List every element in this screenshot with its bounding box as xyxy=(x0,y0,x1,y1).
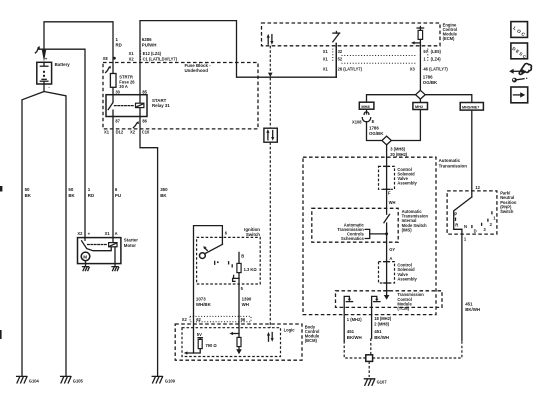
svg-text:D12: D12 xyxy=(116,130,124,135)
svg-text:GY: GY xyxy=(389,247,395,252)
svg-text:350: 350 xyxy=(160,187,168,192)
svg-text:N: N xyxy=(464,224,467,229)
control solenoid valve assembly lower dashed box xyxy=(379,262,418,283)
svg-text:C1 (LAT/LDV/LY7): C1 (LAT/LDV/LY7) xyxy=(143,56,178,61)
svg-text:X2: X2 xyxy=(130,130,136,135)
internal mode switch dashed box xyxy=(312,208,429,242)
wire 350 BK relay 86 to ground G109 xyxy=(140,117,168,376)
relay pin labels 87 86 xyxy=(115,118,147,123)
svg-text:5V: 5V xyxy=(197,332,202,337)
svg-text:1073: 1073 xyxy=(196,297,206,302)
svg-text:18 (MH2): 18 (MH2) xyxy=(374,316,392,321)
svg-text:32: 32 xyxy=(338,49,343,54)
battery xyxy=(37,57,70,90)
wire terminus arrow into TCM xyxy=(384,291,390,300)
svg-text:87: 87 xyxy=(115,118,120,123)
legend icon go-to arrow xyxy=(511,87,528,103)
PNP selector wiper path xyxy=(454,197,472,229)
svg-text:+: + xyxy=(88,232,91,237)
svg-text:(LZ4): (LZ4) xyxy=(431,57,442,62)
starter contact blade xyxy=(82,238,112,251)
svg-text:P: P xyxy=(454,212,457,217)
relay switch contact xyxy=(108,95,113,117)
ECM pin rows right: 57 (LE5) / 1 (LZ4) / X3 46 xyxy=(410,49,449,72)
ignition switch dashed box xyxy=(197,237,261,284)
svg-text:86: 86 xyxy=(142,118,147,123)
splice junction square xyxy=(366,355,373,362)
wire label 1073 WH/BK xyxy=(196,297,212,308)
svg-text:451: 451 xyxy=(347,329,355,334)
automatic transmission dashed box xyxy=(303,157,467,314)
TCM ground driver 2 xyxy=(372,296,380,307)
svg-text:X2: X2 xyxy=(77,231,83,236)
dashed wire splice to PNP 451 BK/WH xyxy=(373,340,462,358)
ignition switch label xyxy=(244,227,260,237)
svg-text:56: 56 xyxy=(241,317,246,322)
svg-text:PU: PU xyxy=(115,193,121,198)
svg-text:451: 451 xyxy=(465,302,473,307)
connector X8 junction xyxy=(103,56,116,61)
wire X108 to lower diamond xyxy=(367,122,382,141)
starter solenoid coil xyxy=(109,238,117,267)
svg-text:(ECM): (ECM) xyxy=(443,36,455,41)
ignition terminal B stub xyxy=(239,252,244,263)
svg-text:30 A: 30 A xyxy=(119,84,128,89)
svg-text:50: 50 xyxy=(68,187,73,192)
fusible link hook at fuse top xyxy=(106,66,111,73)
BCM updown arrows on control line xyxy=(267,332,274,342)
ECM internal pullup resistor and sense arrow xyxy=(411,27,424,46)
svg-text:1786: 1786 xyxy=(423,74,433,79)
svg-text:E12 (LZ4): E12 (LZ4) xyxy=(143,51,162,56)
pin 5 label xyxy=(241,286,244,291)
svg-text:Transmission: Transmission xyxy=(439,164,468,169)
svg-text:WH: WH xyxy=(242,302,249,307)
wire diamond to MNS/ME7 xyxy=(425,95,472,103)
svg-text:790 Ω: 790 Ω xyxy=(205,343,217,348)
svg-text:Logic: Logic xyxy=(284,327,296,332)
ignition start contact xyxy=(233,273,239,317)
wire diamond to MH8 xyxy=(367,95,416,103)
svg-text:MNS/ME7: MNS/ME7 xyxy=(462,105,479,109)
svg-text:BK: BK xyxy=(68,193,75,198)
svg-text:PU/WH: PU/WH xyxy=(142,43,157,48)
svg-text:B: B xyxy=(241,253,244,258)
legend icon diagnostic arrows and wrench xyxy=(509,64,531,83)
svg-text:MH8: MH8 xyxy=(361,104,370,109)
svg-text:X1: X1 xyxy=(129,51,135,56)
svg-text:1786: 1786 xyxy=(369,126,379,131)
dotted pin option rows xyxy=(342,56,416,64)
svg-text:BK: BK xyxy=(25,193,32,198)
relay linkage dashes xyxy=(115,105,135,107)
svg-text:X1: X1 xyxy=(323,49,329,54)
START relay 31 box xyxy=(106,95,170,117)
svg-text:OG/BK: OG/BK xyxy=(423,80,438,85)
svg-text:X1: X1 xyxy=(323,66,329,71)
TCM dashed box xyxy=(336,291,443,311)
svg-text:G107: G107 xyxy=(377,379,388,384)
svg-text:50: 50 xyxy=(25,187,30,192)
connector hook at C10 xyxy=(133,121,138,128)
BCM connector row X2 62 / 56 xyxy=(182,316,251,321)
connector MH8 xyxy=(359,102,374,109)
IMS switch contact xyxy=(384,214,390,295)
svg-text:(BCM): (BCM) xyxy=(305,338,318,343)
wire label WH xyxy=(389,200,396,205)
BCM input 62 with 5V pullup xyxy=(184,316,218,354)
ECM control dashed line to BCM xyxy=(268,46,273,328)
svg-text:BK/WH: BK/WH xyxy=(374,335,389,340)
svg-text:1390: 1390 xyxy=(242,297,252,302)
ignition resistor 1.3 Kohm xyxy=(237,263,257,272)
svg-text:X2: X2 xyxy=(182,317,188,322)
svg-text:3 (MH8): 3 (MH8) xyxy=(390,146,405,151)
svg-text:X1: X1 xyxy=(323,57,329,62)
BCM outer dashed box xyxy=(175,324,320,360)
svg-text:A: A xyxy=(389,256,392,261)
TCM ground driver 1 xyxy=(344,296,352,307)
svg-text:2 (MH8): 2 (MH8) xyxy=(374,322,389,327)
wire 6286 PU/WH relay coil to ECM xyxy=(140,21,336,95)
inline connector X108 xyxy=(352,109,384,136)
wire into control solenoid valve assembly (upper) xyxy=(384,145,390,214)
svg-text:OG/BK: OG/BK xyxy=(369,131,384,136)
wire ECM pin 26 column xyxy=(335,43,337,77)
svg-text:20 (MH2): 20 (MH2) xyxy=(390,152,408,157)
svg-text:C10: C10 xyxy=(142,130,150,135)
wire battery feed to starter (1 RD) with fusible-link hook xyxy=(35,46,85,238)
fuse block underhood dashed box xyxy=(103,63,258,129)
svg-text:X8: X8 xyxy=(103,56,109,61)
svg-text:RD: RD xyxy=(116,43,122,48)
wire 451 BK/WH from TCM pin 1 xyxy=(344,307,366,358)
power feed arrow into battery positive xyxy=(42,50,46,62)
svg-text:D: D xyxy=(474,229,477,234)
page edge mark xyxy=(0,186,2,339)
wire label 1 RD (starter feed) xyxy=(88,187,94,198)
svg-text:(LE5): (LE5) xyxy=(431,49,442,54)
fuse STRTR Fuse 26 30A xyxy=(110,73,135,94)
ECM dashed box xyxy=(262,22,458,45)
svg-text:Automatic: Automatic xyxy=(439,158,461,163)
ground G109 xyxy=(152,376,175,383)
svg-text:G104: G104 xyxy=(29,379,40,384)
BCM logic dashed box xyxy=(182,327,295,356)
ignition switch rotor contact xyxy=(200,244,223,258)
svg-text:X108: X108 xyxy=(352,119,362,124)
starter ground (motor) xyxy=(83,267,90,271)
wire 6 PU relay 87 to starter solenoid xyxy=(113,117,121,238)
svg-text:Switch: Switch xyxy=(500,209,514,214)
svg-text:RD: RD xyxy=(88,193,94,198)
ground G107 xyxy=(364,379,387,386)
PNP pin 1 label xyxy=(464,236,467,241)
splice diamond node (1786) xyxy=(416,90,426,99)
svg-text:12: 12 xyxy=(475,185,480,190)
TCM pin labels xyxy=(347,316,392,327)
svg-text:Motor: Motor xyxy=(124,243,136,248)
svg-text:26 (LAT/LY7): 26 (LAT/LY7) xyxy=(338,66,363,71)
svg-text:+: + xyxy=(45,57,48,62)
wire battery B+ top feed to fuse block (1 RD) xyxy=(44,22,113,74)
svg-text:30: 30 xyxy=(115,89,120,94)
legend icon DESC xyxy=(511,43,528,60)
svg-text:6286: 6286 xyxy=(142,37,152,42)
svg-text:M: M xyxy=(83,254,87,259)
updown arrow box on control line xyxy=(264,128,277,142)
ignition switch position ticks xyxy=(215,261,233,266)
starter motor M xyxy=(81,252,90,266)
svg-text:1.3 KΩ: 1.3 KΩ xyxy=(244,267,258,272)
connector row X1 D12 / X2 C10 xyxy=(104,130,150,135)
starter ground (solenoid) xyxy=(112,267,119,271)
pin F label xyxy=(388,191,391,196)
splice diamond node (transmission feed) xyxy=(382,136,408,157)
starter pin labels X2 + / X1 A xyxy=(77,231,117,236)
svg-text:G105: G105 xyxy=(73,379,84,384)
wire label 1390 WH xyxy=(242,297,252,308)
svg-text:Schematics: Schematics xyxy=(341,236,364,241)
connector row X1 E12 / X2 C1 at fuse block top xyxy=(129,51,178,62)
svg-text:X1: X1 xyxy=(105,231,111,236)
PNP switch dashed box xyxy=(447,191,517,234)
svg-text:85: 85 xyxy=(142,89,147,94)
svg-text:46 (LAT/LY7): 46 (LAT/LY7) xyxy=(423,66,448,71)
svg-text:WH/BK: WH/BK xyxy=(196,302,212,307)
legend icon LOC xyxy=(511,22,528,38)
svg-text:Assembly: Assembly xyxy=(397,181,417,186)
relay pin labels 30 85 xyxy=(115,89,147,94)
svg-text:Assembly: Assembly xyxy=(397,276,417,281)
wire label 50 BK (left) xyxy=(25,187,32,198)
ignition switch housing outline xyxy=(194,226,228,317)
relay coil xyxy=(136,95,144,117)
starter linkage dashes xyxy=(88,244,108,246)
wire 1786 OG/BK ECM to diamond node xyxy=(420,46,438,91)
svg-text:X3: X3 xyxy=(410,66,416,71)
svg-text:(IMS): (IMS) xyxy=(402,227,413,232)
svg-text:BK/WH: BK/WH xyxy=(347,335,362,340)
ECM pin rows left: X1 32 / X1 52 / X1 26 xyxy=(323,49,363,72)
dashed wire splice to ground G107 xyxy=(368,361,370,377)
wire 12 into PNP switch xyxy=(472,110,481,197)
control solenoid valve assembly upper dashed box xyxy=(379,166,418,189)
ECM internal crank switch xyxy=(333,32,340,42)
svg-text:62: 62 xyxy=(196,317,201,322)
svg-text:(TCM): (TCM) xyxy=(397,306,409,311)
wire MH2 to lower diamond xyxy=(391,110,420,141)
reference branch to transmission controls schematics xyxy=(337,222,388,241)
ground G105 xyxy=(61,376,84,383)
wire label 1 RD (fuse feed) xyxy=(116,37,122,47)
svg-text:BK: BK xyxy=(160,193,167,198)
svg-text:R: R xyxy=(455,223,458,228)
svg-text:BK/WH: BK/WH xyxy=(465,307,480,312)
svg-text:Switch: Switch xyxy=(246,232,260,237)
svg-text:START: START xyxy=(152,98,167,103)
wire 451 BK/WH from TCM pins 18/2 xyxy=(371,307,389,354)
ECM internal updown arrows xyxy=(267,34,274,45)
wire battery negative split to grounds xyxy=(22,84,66,376)
svg-text:1 (MH2): 1 (MH2) xyxy=(347,317,362,322)
svg-text:52: 52 xyxy=(338,57,343,62)
wire 451 BK/WH from PNP switch xyxy=(462,229,480,340)
svg-text:WH: WH xyxy=(389,200,396,205)
ground G104 xyxy=(17,376,40,383)
wire labels GY / A xyxy=(389,247,395,261)
PNP position letters and contacts xyxy=(454,212,496,234)
svg-text:G109: G109 xyxy=(165,379,176,384)
wire label 50 BK (right) xyxy=(68,187,75,198)
svg-text:MH2: MH2 xyxy=(415,104,424,109)
svg-text:Battery: Battery xyxy=(55,62,71,67)
svg-text:451: 451 xyxy=(374,329,382,334)
connector MNS/ME7 xyxy=(460,103,483,111)
starter motor box xyxy=(78,238,139,264)
svg-text:X1: X1 xyxy=(104,130,110,135)
wire diamond to MH2 xyxy=(419,99,421,102)
BCM input 56 crank request xyxy=(229,316,241,354)
svg-text:Relay 31: Relay 31 xyxy=(152,103,170,108)
svg-text:A: A xyxy=(115,231,118,236)
connector MH2 xyxy=(413,103,428,110)
svg-text:E: E xyxy=(372,119,375,124)
svg-text:Underhood: Underhood xyxy=(185,68,209,73)
svg-text:X2: X2 xyxy=(129,56,135,61)
